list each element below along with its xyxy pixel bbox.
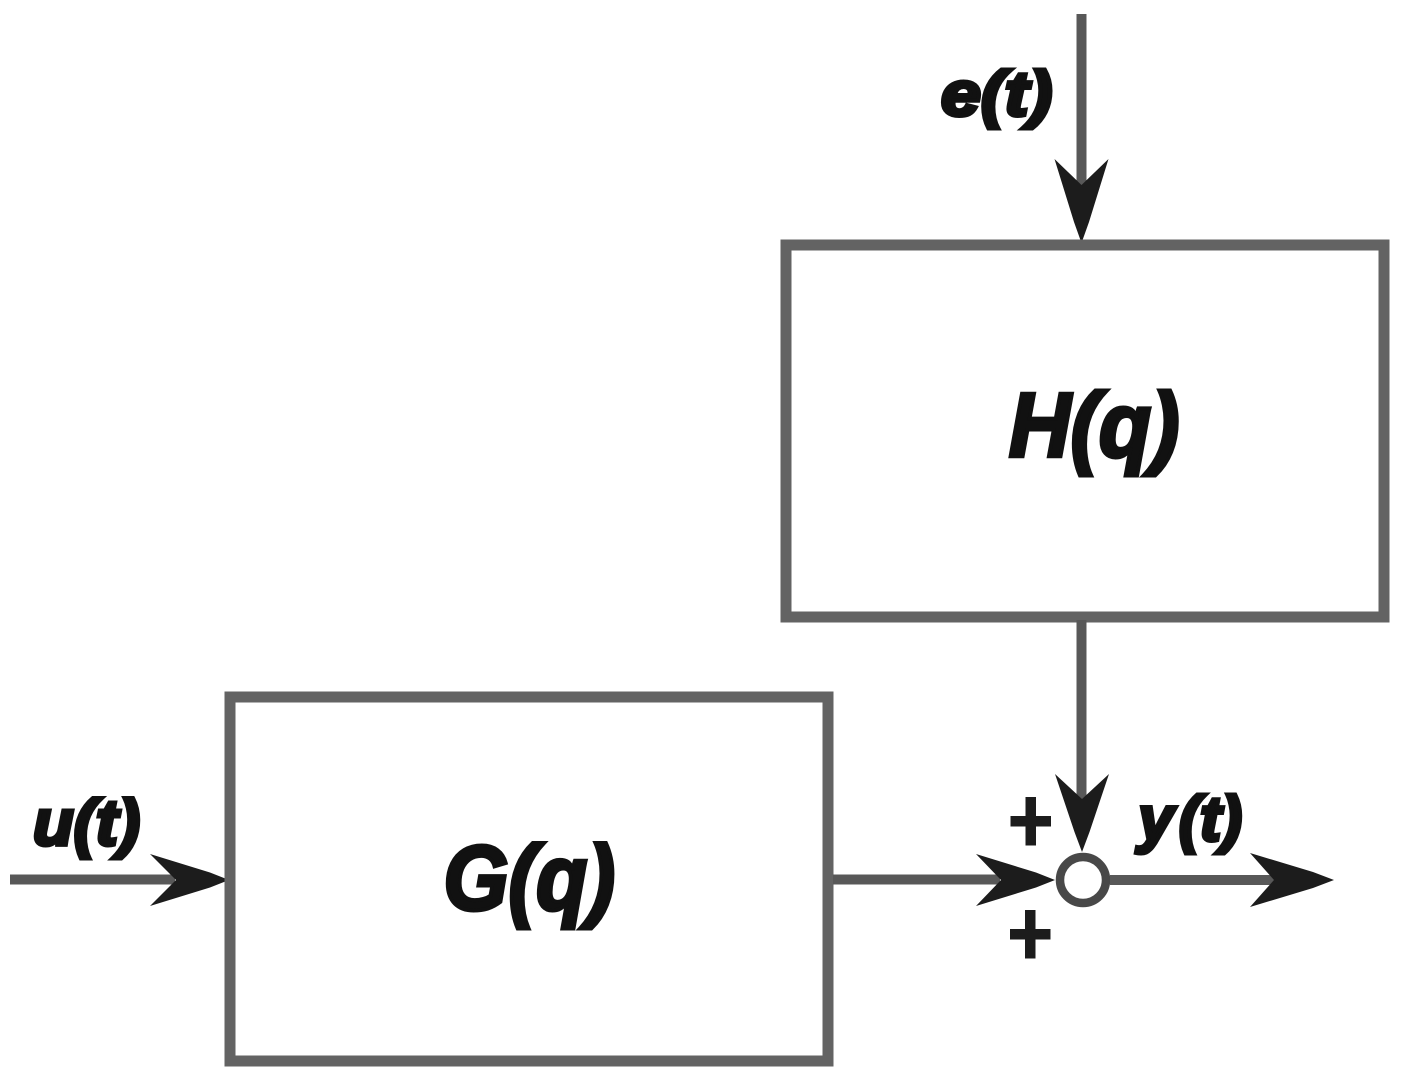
- label u(t): [33, 786, 140, 859]
- label y(t): [1135, 785, 1242, 855]
- wire u(t) input horizontal: [10, 875, 175, 885]
- label G(q): [444, 826, 616, 930]
- label e(t): [941, 60, 1052, 130]
- arrowhead y(t) output: [1250, 853, 1334, 907]
- svg-text:G(q): G(q): [444, 826, 616, 930]
- arrowhead into summing junction top: [1055, 774, 1109, 852]
- arrowhead into summing junction left: [976, 854, 1055, 906]
- wire y(t) output horizontal: [1110, 875, 1274, 885]
- wire H(q) output vertical: [1077, 620, 1087, 799]
- svg-text:u(t): u(t): [33, 786, 140, 859]
- arrowhead into H(q) top: [1055, 159, 1109, 243]
- summing junction: [1060, 857, 1106, 903]
- svg-text:H(q): H(q): [1009, 374, 1179, 476]
- svg-text:y (t): y (t): [1135, 785, 1242, 855]
- svg-text:e(t): e(t): [941, 60, 1052, 130]
- plus sign upper: [1011, 797, 1052, 846]
- arrowhead into G(q) left: [150, 854, 229, 906]
- plus sign lower: [1010, 910, 1051, 959]
- wire e(t) input vertical: [1077, 14, 1087, 185]
- label H(q): [1009, 374, 1179, 476]
- block H(q): [786, 245, 1384, 617]
- wire G(q) output horizontal: [833, 875, 1000, 885]
- block G(q): [230, 697, 828, 1061]
